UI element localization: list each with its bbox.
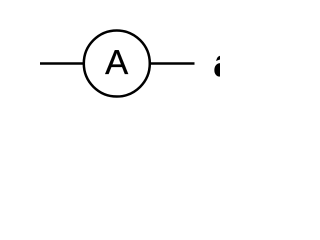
node a label, bowl fragment (letter clipped at right edge) <box>214 63 220 77</box>
ammeter A1 (circle body) <box>84 31 150 97</box>
ammeter A1 label "A" <box>105 43 128 82</box>
wire (right lead) <box>149 62 195 65</box>
svg-text:A: A <box>105 43 128 82</box>
node a label, arch fragment (letter clipped at right edge) <box>216 56 220 61</box>
wire (left lead) <box>40 62 85 65</box>
